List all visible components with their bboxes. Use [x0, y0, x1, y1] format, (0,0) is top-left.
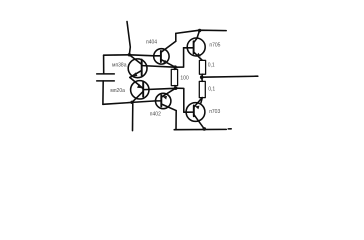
transistor Q6 base bar	[193, 106, 195, 117]
transistor Q3 emitter arrow	[163, 60, 168, 64]
svg-text:мп20а: мп20а	[110, 88, 125, 94]
capacitor C1 bottom plate	[97, 80, 115, 82]
wire bottom rail	[174, 128, 226, 130]
wire R3 bottom to Q6	[201, 98, 202, 103]
svg-text:п402: п402	[150, 112, 161, 118]
transistor Q2 base bar	[142, 81, 144, 96]
transistor Q1 emitter lead	[130, 70, 142, 77]
wire vertical to capacitor top	[103, 55, 105, 73]
transistor Q6 collector lead	[194, 114, 205, 128]
transistor Q1 мп38а circle	[128, 59, 147, 78]
transistor Q3 collector lead	[161, 41, 176, 52]
wire below capacitor	[102, 81, 104, 104]
transistor Q5 emitter lead	[194, 52, 203, 61]
node junction output	[200, 75, 204, 79]
svg-text:100: 100	[180, 76, 189, 82]
transistor Q5 base bar	[193, 41, 195, 53]
wire long descending terminal	[132, 102, 134, 130]
wire Q2 base to node lower-mid	[144, 88, 176, 89]
transistor Q5 base lead	[184, 47, 194, 49]
transistor Q4 п402 circle	[156, 93, 171, 108]
resistor R2 0,1 body	[199, 60, 205, 74]
transistor Q2 мп20а circle	[131, 81, 149, 99]
wire Q1 base to node mid	[143, 66, 176, 68]
transistor Q6 п703 circle	[186, 103, 205, 122]
transistor Q4 emitter arrow	[163, 96, 167, 100]
transistor Q1 collector lead	[129, 55, 141, 65]
node junction bottom rail	[203, 127, 207, 131]
wire y55 horizontal to base of T3	[104, 55, 154, 56]
node junction lower-left	[130, 101, 133, 104]
resistor R2 bottom lead	[201, 74, 204, 77]
transistor Q3 base bar	[160, 51, 162, 62]
transistor Q3 emitter lead	[161, 59, 175, 67]
svg-text:мп38а: мп38а	[112, 62, 127, 68]
wire Q5 base down to node mid	[175, 48, 183, 67]
transistor Q3 base stub	[154, 55, 161, 57]
transistor Q2 collector lead	[132, 91, 143, 102]
transistor Q4 base stub	[156, 100, 162, 102]
transistor Q2 emitter arrow	[137, 84, 143, 89]
transistor Q4 emitter lead	[161, 88, 175, 97]
transistor Q3 п404 circle	[154, 49, 169, 64]
capacitor C1 top plate	[97, 73, 115, 75]
transistor Q4 base bar	[160, 95, 162, 106]
svg-text:п703: п703	[209, 109, 220, 115]
transistor Q6 emitter arrow	[195, 106, 200, 110]
wire top rail	[176, 30, 226, 33]
resistor R1 100 body	[171, 69, 177, 85]
wire node lower-mid to Q6 base	[176, 88, 188, 112]
transistor Q1 emitter arrow	[131, 72, 138, 77]
wire Q4 collector to bottom rail	[175, 111, 177, 130]
wire input slant top-left	[127, 22, 130, 55]
resistor R1 bottom lead	[174, 86, 177, 89]
transistor Q5 п705 circle	[187, 38, 205, 56]
wire bottom rail dash	[228, 128, 231, 130]
node junction lower-mid	[174, 86, 178, 90]
transistor Q4 collector lead	[161, 104, 176, 111]
wire y104 to base of T4	[103, 101, 156, 104]
svg-text:п404: п404	[146, 40, 157, 46]
transistor Q5 collector lead	[194, 30, 200, 42]
node junction top rail	[198, 29, 201, 32]
node junction mid	[173, 65, 177, 69]
transistor Q6 base stub	[188, 111, 194, 113]
resistor R3 top lead	[201, 77, 204, 81]
transistor Q6 emitter lead	[194, 98, 202, 108]
wire output	[202, 76, 258, 77]
wire Q3 collector up to rail	[175, 33, 177, 41]
svg-text:0,1: 0,1	[208, 87, 215, 93]
transistor Q5 emitter arrow	[196, 53, 201, 57]
svg-text:п705: п705	[209, 43, 220, 49]
resistor R3 0,1 body	[199, 81, 205, 97]
node junction input	[128, 53, 131, 56]
resistor R1 top lead	[174, 67, 177, 69]
transistor Q1 base bar	[141, 60, 143, 76]
svg-text:0,1: 0,1	[208, 62, 215, 68]
transistor Q2 emitter lead shared	[130, 77, 143, 88]
